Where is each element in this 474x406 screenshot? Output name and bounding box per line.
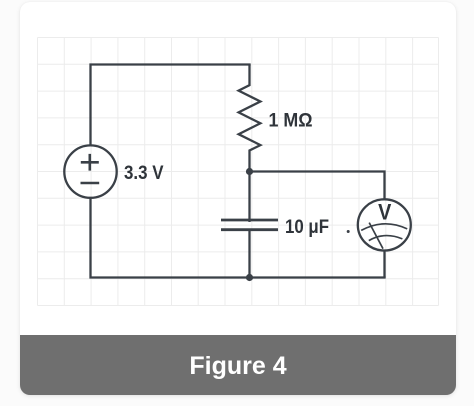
svg-text:3.3 V: 3.3 V <box>124 163 164 184</box>
svg-text:1 MΩ: 1 MΩ <box>269 111 313 132</box>
svg-text:V: V <box>378 199 392 224</box>
svg-text:10 μF: 10 μF <box>285 217 329 238</box>
